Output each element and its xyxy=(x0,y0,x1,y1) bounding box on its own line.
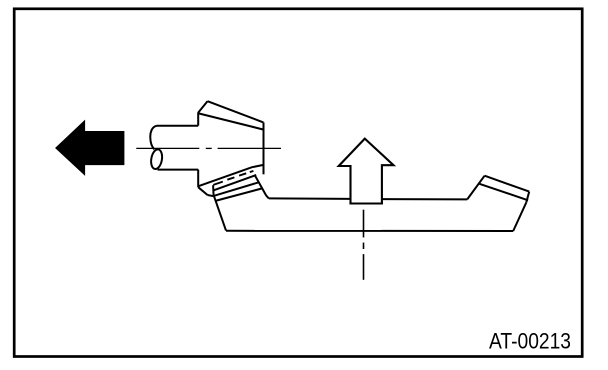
right tab end cap xyxy=(526,192,529,203)
bracket right silhouette xyxy=(513,202,526,231)
cone right edge xyxy=(263,122,265,174)
left tab tip bottom edge xyxy=(208,195,214,196)
bracket left silhouette xyxy=(214,196,226,230)
right tab kink edge xyxy=(467,176,484,200)
cone left step upper vertical xyxy=(197,112,199,125)
svg-text:AT-00213: AT-00213 xyxy=(489,329,571,354)
cone left step lower vertical xyxy=(197,170,199,188)
hidden edge (dashed) behind left tab xyxy=(213,171,253,185)
rod rounded left cap arc xyxy=(150,126,157,150)
cone top chamfer line xyxy=(199,113,264,129)
bracket front top edge sliver xyxy=(215,188,262,201)
vertical dash-dot centerline under arrow xyxy=(363,210,365,280)
left tab end cap xyxy=(212,185,215,196)
bracket bottom edge xyxy=(226,230,513,232)
rod cylinder bottom edge xyxy=(158,169,199,171)
horizontal dash-dot centerline of rod xyxy=(136,147,281,149)
left tab steep edge down to bracket top xyxy=(255,176,269,199)
rod end-face ellipse xyxy=(150,149,164,170)
right tab chamfer line xyxy=(479,184,528,201)
hollow up arrow xyxy=(339,139,394,204)
left tab face upper edge xyxy=(214,175,257,190)
right tab face upper edge xyxy=(485,176,530,192)
cone top silhouette edge xyxy=(208,101,264,122)
rod cylinder top edge xyxy=(157,125,199,127)
left tab face lower edge xyxy=(214,182,259,196)
bracket top edge (right of arrow) xyxy=(382,198,467,200)
cone bottom-left tip diagonal xyxy=(198,187,207,195)
cone peak left edge xyxy=(198,101,207,112)
cone bottom silhouette edge xyxy=(198,165,263,186)
bracket top edge (left of arrow) xyxy=(269,197,351,200)
black direction arrow (pointing left) xyxy=(56,121,124,175)
